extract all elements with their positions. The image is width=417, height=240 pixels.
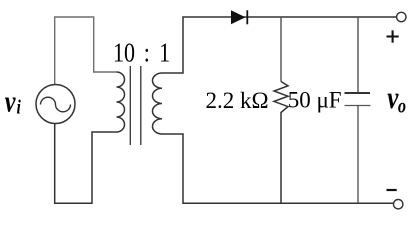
svg-text:v: v	[387, 80, 398, 116]
svg-text:1: 1	[159, 38, 170, 68]
svg-text:10: 10	[113, 38, 135, 68]
svg-text:50 μF: 50 μF	[288, 88, 342, 113]
svg-text:v: v	[5, 85, 16, 120]
svg-text:i: i	[16, 96, 20, 118]
svg-text::: :	[144, 38, 150, 68]
svg-text:o: o	[398, 95, 406, 118]
svg-text:2.2 kΩ: 2.2 kΩ	[206, 88, 269, 113]
